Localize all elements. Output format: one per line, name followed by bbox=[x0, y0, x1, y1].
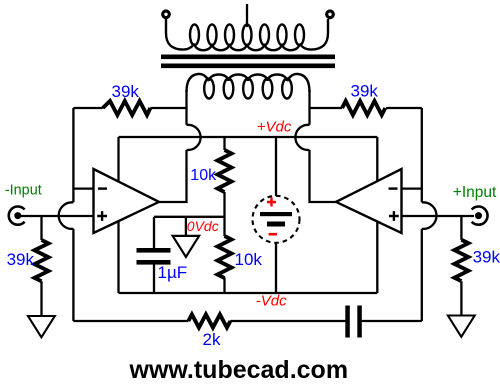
transformer T1 secondary terminal left bbox=[163, 11, 170, 18]
svg-text:39k: 39k bbox=[351, 82, 379, 101]
wire: R3 to R4 bbox=[223, 192, 225, 236]
wire: +Vdc rail to R3 bbox=[223, 137, 225, 150]
wire: +Vdc rail to battery B1 bbox=[275, 137, 277, 196]
battery B1 dashed circle bbox=[253, 196, 300, 243]
svg-text:39k: 39k bbox=[473, 248, 500, 267]
resistor R3 10k (upper) bbox=[218, 150, 232, 192]
wire: +Vdc rail to U1 V+ pin bbox=[117, 137, 119, 182]
wire: R1 to primary left terminal bbox=[150, 107, 186, 109]
svg-text:39k: 39k bbox=[7, 250, 35, 269]
wire: left outer vertical lower bbox=[72, 229, 74, 321]
op-amp U1 plus input mark bbox=[97, 211, 107, 221]
wire: left outer vertical (feedback) upper bbox=[72, 108, 74, 202]
wire hop over -Input wire (left outer) bbox=[59, 202, 74, 229]
transformer T1 primary winding bbox=[187, 74, 310, 99]
input jack J1 center pin bbox=[14, 212, 21, 219]
capacitor C2 plates bbox=[345, 306, 362, 338]
wire: primary left side below hop to op-amp U1 output bbox=[159, 150, 187, 202]
wire: battery B1 to -Vdc rail bbox=[275, 243, 277, 293]
battery B1 plus mark bbox=[267, 198, 276, 207]
wire: bottom feedback left bbox=[73, 320, 188, 322]
wire: junction to R5 bbox=[40, 216, 42, 240]
svg-text:2k: 2k bbox=[203, 330, 221, 349]
ground symbol (left) bbox=[28, 316, 55, 337]
resistor R7 2k bbox=[188, 314, 230, 327]
svg-text:-Vdc: -Vdc bbox=[256, 293, 287, 310]
wire: -Vdc rail bbox=[119, 292, 378, 294]
wire: R5 to ground bbox=[40, 281, 42, 316]
op-amp U2 plus input mark bbox=[389, 211, 399, 221]
wire: U1 inverting input bbox=[73, 187, 93, 189]
wire: +Input jack to U2 non-inverting input bbox=[402, 215, 475, 217]
wire: primary right side down to hop bbox=[308, 90, 310, 125]
wire: top-left corner to resistor R1 bbox=[73, 107, 102, 109]
0Vdc marker triangle bbox=[173, 236, 199, 257]
transformer T1 secondary terminal right bbox=[327, 11, 334, 18]
op-amp U1 minus input mark bbox=[98, 187, 107, 189]
svg-text:www.tubecad.com: www.tubecad.com bbox=[129, 356, 349, 384]
wire: U1 V- pin to -Vdc rail bbox=[117, 221, 119, 293]
wire: +Vdc rail to U2 V+ pin bbox=[376, 137, 378, 182]
wire: 0Vdc node down to C1 bbox=[153, 217, 155, 248]
op-amp U1 triangle bbox=[94, 169, 160, 233]
svg-text:10k: 10k bbox=[190, 167, 217, 184]
wire: U2 inverting input bbox=[402, 187, 422, 189]
svg-text:-Input: -Input bbox=[5, 183, 42, 199]
resistor R2 39k (top right) bbox=[342, 101, 385, 115]
wire: right outer vertical (feedback) upper bbox=[421, 108, 423, 202]
ground symbol (right) bbox=[448, 316, 475, 337]
resistor R5 39k (left shunt) bbox=[35, 240, 49, 281]
transformer T1 center tap wire bbox=[246, 4, 248, 27]
svg-text:+Input: +Input bbox=[453, 184, 497, 201]
battery B1 minus mark bbox=[269, 233, 277, 236]
wire: right outer vertical lower bbox=[421, 229, 423, 321]
wire: C1 to -Vdc rail bbox=[153, 265, 155, 294]
transformer T1 secondary winding bbox=[166, 19, 328, 50]
wire: primary right terminal to resistor R2 bbox=[310, 107, 343, 109]
wire: primary left side down to hop bbox=[185, 90, 187, 125]
resistor R4 10k (lower) bbox=[218, 236, 232, 278]
wire hop over +Input wire (right outer) bbox=[422, 202, 437, 229]
wire: -Input jack to U1 non-inverting input bbox=[21, 215, 94, 217]
input jack J1 (-Input) bbox=[9, 206, 25, 224]
svg-text:10k: 10k bbox=[235, 250, 263, 269]
resistor R1 39k (top left) bbox=[103, 101, 151, 115]
wire: C2 to right outer vertical bbox=[362, 320, 422, 322]
wire: junction to R6 bbox=[460, 216, 462, 240]
wire: primary right side below hop to op-amp U2 output bbox=[310, 150, 337, 202]
resistor R6 39k (right shunt) bbox=[454, 240, 468, 281]
transformer T1 core bbox=[161, 55, 335, 69]
op-amp U2 triangle bbox=[336, 169, 402, 233]
wire: 0Vdc marker stub bbox=[185, 217, 187, 236]
wire: U2 V- pin to -Vdc rail bbox=[376, 221, 378, 293]
battery B1 plates bbox=[260, 212, 292, 227]
svg-text:+Vdc: +Vdc bbox=[257, 118, 292, 135]
wire: R4 to -Vdc rail bbox=[223, 278, 225, 294]
capacitor C1 1uF plates bbox=[137, 248, 171, 265]
input jack J2 center pin bbox=[475, 212, 482, 219]
wire: 0Vdc node horizontal bbox=[154, 216, 225, 218]
wire hop over +Vdc rail (right) bbox=[295, 125, 309, 150]
op-amp U2 minus input mark bbox=[389, 187, 398, 189]
wire: R7 to C2 bbox=[230, 320, 345, 322]
svg-text:0Vdc: 0Vdc bbox=[187, 218, 219, 234]
wire: +Vdc rail bbox=[119, 136, 378, 138]
input jack J2 (+Input) bbox=[472, 207, 488, 225]
svg-text:39k: 39k bbox=[112, 82, 140, 101]
wire hop over +Vdc rail (left) bbox=[187, 125, 201, 150]
wire: R6 to ground bbox=[460, 281, 462, 315]
svg-text:1µF: 1µF bbox=[158, 263, 188, 282]
wire: R2 to right outer corner bbox=[386, 107, 422, 109]
